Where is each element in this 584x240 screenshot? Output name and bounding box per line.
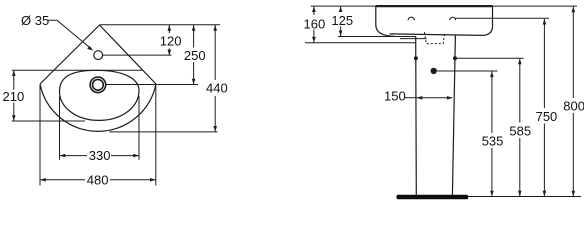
svg-text:210: 210 [3,89,25,104]
svg-text:330: 330 [89,148,111,163]
dimension 120 arrow up [168,25,172,31]
dimension 330 arrow right [133,154,139,158]
dimension 440 line [214,25,216,132]
dimension 210 line [13,70,15,121]
svg-text:440: 440 [206,81,228,96]
hole arc left [408,17,414,20]
dimension 480 arrow right [150,178,156,182]
dimension 585 arrow down [518,191,522,197]
dimension 120 arrow down [168,50,172,56]
basin back bottom line [305,42,416,44]
dimension 150 line [405,97,453,99]
tap hole center line [103,54,172,56]
svg-text:535: 535 [482,134,504,149]
dimension 250 arrow up [192,25,196,31]
dimension 480 line [40,179,156,181]
top reference line full width [311,5,577,7]
dimension 585 arrow up [518,59,522,65]
dimension 480 right extension [155,86,157,186]
dimension 330 arrow left [60,154,66,158]
svg-text:250: 250 [184,48,206,63]
leader line Ø 35 [48,20,91,48]
svg-text:800: 800 [563,99,584,114]
dimension 535 arrow down [490,191,494,197]
dimension 250 arrow down [192,79,196,85]
dimension 330 left extension [59,96,61,160]
dimension 585 line [519,59,521,197]
dimension 150 arrow left [417,96,423,100]
drain outer circle [90,77,106,93]
fixing hole right dot [453,56,457,60]
svg-text:150: 150 [384,88,406,103]
fixing hole reference line [457,57,524,59]
svg-text:120: 120 [160,34,182,49]
drain dot [431,68,437,74]
dimension 440 arrow up [213,25,217,31]
basin slab body [376,6,493,36]
drain center line [106,84,198,86]
base plate [397,195,469,199]
dimension 440 bottom extension [109,131,217,133]
bowl top extension line (210 top reference) [12,69,143,71]
svg-text:Ø 35: Ø 35 [21,13,49,28]
dimension 800 arrow down [572,191,576,197]
dimension 210 arrow down [12,115,16,121]
dimension 250 line [193,25,195,85]
dimension 210 arrow up [12,70,16,76]
basin underside line [400,38,427,40]
dimension 535 line [491,72,493,197]
dimension 210 bottom extension [12,120,85,122]
dimension 750 line [543,19,545,196]
basin outline left slant [40,25,100,84]
dimension 330 right extension [138,96,140,160]
trap dashed outline [424,32,444,43]
dimension 160 line [313,6,315,43]
dimension 160 arrow down [312,37,316,43]
dimension 480 left extension [39,86,41,186]
svg-text:585: 585 [509,123,531,138]
basin outline front arc [40,84,156,131]
floor line [468,196,581,198]
svg-text:750: 750 [536,109,558,124]
dimension 150 arrow right [447,96,453,100]
svg-text:160: 160 [304,16,326,31]
dimension 125 arrow up [339,7,343,13]
svg-text:480: 480 [87,172,109,187]
dimension 480 arrow left [40,178,46,182]
dimension 750 arrow down [543,191,547,197]
dimension 440 arrow down [213,126,217,132]
tap hole circle [94,51,103,60]
basin front lip line [338,36,416,38]
drain reference line [437,70,498,72]
leader arrowhead [87,46,93,51]
dimension 800 line [572,7,574,197]
dimension 330 line [60,155,140,157]
pedestal right edge [452,36,455,196]
dimension 535 arrow up [490,72,494,78]
basin outline right slant [100,25,157,84]
top extension line (120/250/440 reference) [100,24,221,26]
dimension 120 line [168,25,170,55]
drain inner circle [93,79,104,90]
dimension 125 line [340,6,342,36]
svg-text:125: 125 [331,13,353,28]
dimension 160 arrow up [312,7,316,13]
bowl inner oval [60,70,140,120]
hole arc right [450,17,456,20]
tap hole reference line [455,17,549,19]
basin slab top edge (thick) [376,5,493,7]
dimension 750 arrow up [543,19,547,25]
dimension 800 arrow up [572,7,576,13]
fixing hole left dot [414,56,418,60]
pedestal left edge [415,36,418,195]
dimension 125 arrow down [339,31,343,37]
